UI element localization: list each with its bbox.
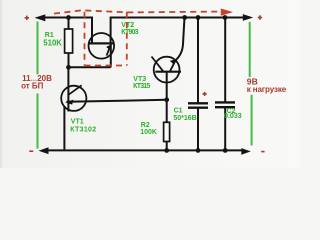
svg-text:VT1: VT1	[71, 119, 84, 126]
svg-text:VT3: VT3	[133, 76, 146, 83]
svg-text:0.033: 0.033	[224, 113, 242, 120]
svg-text:от БП: от БП	[21, 82, 44, 91]
svg-text:50*16В: 50*16В	[173, 115, 196, 122]
svg-text:КТ3102: КТ3102	[70, 126, 96, 133]
svg-text:КТ315: КТ315	[133, 83, 150, 90]
svg-text:к нагрузке: к нагрузке	[247, 85, 287, 94]
svg-text:100K: 100K	[140, 129, 157, 136]
svg-text:КТ903: КТ903	[121, 29, 138, 36]
svg-text:510K: 510K	[43, 38, 62, 47]
svg-text:C1: C1	[174, 107, 183, 114]
